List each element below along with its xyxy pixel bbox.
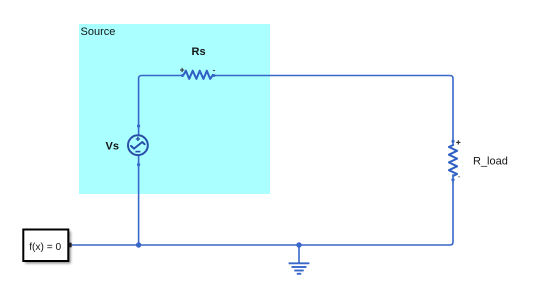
Rs plus terminal mark — [180, 68, 184, 72]
resistor R_load zigzag — [449, 145, 457, 176]
ground junction node — [296, 242, 301, 247]
port nub Rs right — [212, 74, 215, 77]
Rs minus terminal mark — [213, 70, 215, 72]
resistor Rs zigzag — [184, 71, 213, 79]
svg-text:Source: Source — [81, 26, 116, 38]
wire: from Rs right to top-right corner — [213, 76, 453, 146]
svg-text:f(x) = 0: f(x) = 0 — [29, 242, 61, 253]
wire: from R_load down to bottom-right corner and left to ground junction — [72, 174, 454, 245]
port nub R_load bottom — [451, 178, 454, 181]
port nub Vs bottom — [137, 163, 140, 166]
solver block f(x)=0 — [23, 230, 68, 262]
solver block f(x)=0 shadow — [25, 231, 70, 263]
port nub Vs top — [137, 124, 140, 127]
voltage source Vs — [128, 135, 148, 155]
wire: from Vs bottom down to bottom bus — [138, 155, 140, 245]
svg-text:R_load: R_load — [473, 156, 508, 168]
junction node at Vs branch — [136, 242, 141, 247]
solver block port — [69, 243, 72, 248]
R_load plus terminal mark — [456, 140, 460, 144]
svg-text:Vs: Vs — [106, 141, 119, 153]
port nub Rs left — [181, 74, 184, 77]
svg-text:Rs: Rs — [192, 46, 206, 58]
area annotation Source — [79, 24, 270, 194]
wire: top-left corner from Vs up and right to Rs — [139, 76, 184, 136]
R_load minus terminal mark — [458, 176, 460, 178]
ground symbol — [289, 245, 310, 274]
port nub R_load top — [451, 140, 454, 143]
